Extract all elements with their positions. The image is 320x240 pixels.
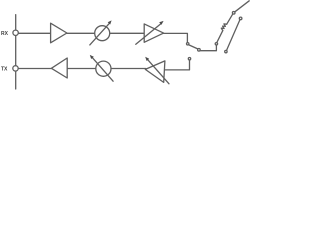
wire RX rail segment 1 [18,32,50,34]
resistor zigzag on diagonal A [221,24,226,31]
wire TX output to switch [165,60,190,70]
node antenna line B bottom contact [225,50,227,52]
wire diagonal B [227,20,240,51]
node TX port circle [13,66,18,71]
phase shifter P2 circle [96,61,111,76]
wire antenna feed from switch common [200,45,216,51]
wire RX rail segment 3 [110,32,145,34]
switch contact RX circle [187,43,189,45]
phase shifter P2 arrow [93,58,114,81]
amplifier A3 (TX path, pointing left) [51,58,67,78]
node antenna line A top contact [232,12,235,15]
phase shifter P1 circle [95,26,110,41]
wire diagonal A lower segment [217,31,223,43]
svg-text:RX: RX [1,31,9,37]
wire TX rail segment 3 [111,68,146,70]
phase shifter P1 arrow [90,23,110,45]
variable amplifier A4 (TX path, tilted, pointing left) [145,61,165,83]
wire diagonal A upper segment [227,14,233,24]
switch common circle [198,49,201,52]
node antenna line A bottom contact [215,43,217,45]
node RX port circle [13,30,18,35]
node antenna line B top contact [239,17,242,20]
wire feed vertical line [15,15,17,89]
wire RX rail to switch [164,33,188,42]
variable amplifier A2 (RX path) [144,24,163,42]
switch contact TX circle [188,58,190,60]
wire switch arm to antenna (corner) [235,1,249,12]
wire TX rail segment 1 [18,68,51,70]
variable amplifier A4 arrow [148,59,170,83]
switch arm [189,45,198,49]
amplifier A1 (RX path, pointing right) [51,23,67,43]
variable amplifier A2 arrow [136,24,161,45]
wire TX rail segment 2 [67,68,96,70]
wire RX rail segment 2 [67,32,95,34]
svg-text:TX: TX [1,66,8,72]
